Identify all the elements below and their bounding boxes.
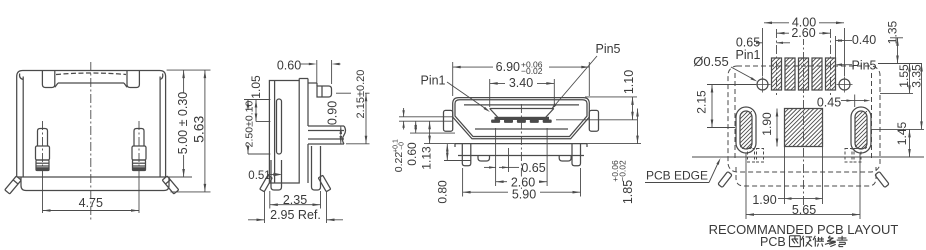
svg-text:5.65: 5.65: [792, 203, 816, 217]
svg-text:1.05: 1.05: [249, 75, 263, 99]
svg-text:0.51: 0.51: [248, 170, 270, 182]
svg-text:3.40: 3.40: [509, 76, 533, 90]
svg-text:0.90: 0.90: [326, 101, 340, 125]
svg-text:5.63: 5.63: [191, 115, 207, 142]
svg-text:−0.02: −0.02: [618, 160, 628, 182]
svg-text:1.13: 1.13: [420, 146, 434, 170]
svg-text:1.90: 1.90: [760, 112, 774, 136]
svg-text:2.50±0.10: 2.50±0.10: [244, 101, 256, 148]
svg-text:−0.02: −0.02: [521, 66, 543, 76]
svg-text:Pin5: Pin5: [851, 58, 876, 72]
svg-text:PCB EDGE: PCB EDGE: [646, 169, 708, 183]
svg-text:Ø0.55: Ø0.55: [693, 54, 728, 69]
svg-text:2.35: 2.35: [283, 193, 307, 207]
svg-text:1.90: 1.90: [752, 193, 776, 207]
svg-text:0.65: 0.65: [521, 161, 545, 175]
svg-text:0.22: 0.22: [393, 152, 405, 173]
svg-text:4.75: 4.75: [79, 196, 103, 210]
svg-text:2.15: 2.15: [695, 90, 709, 114]
svg-text:0.45: 0.45: [817, 95, 841, 109]
svg-text:1.10: 1.10: [622, 70, 636, 94]
svg-text:6.90: 6.90: [496, 60, 520, 74]
svg-text:Pin5: Pin5: [595, 42, 620, 56]
svg-text:0.60: 0.60: [277, 58, 301, 72]
svg-text:1.35: 1.35: [886, 20, 900, 44]
svg-text:Pin1: Pin1: [420, 74, 445, 88]
svg-text:5.00 ± 0.30: 5.00 ± 0.30: [176, 92, 190, 155]
svg-text:2.95 Ref.: 2.95 Ref.: [270, 208, 321, 222]
svg-text:1.85: 1.85: [621, 180, 635, 204]
svg-text:2.15±0.20: 2.15±0.20: [355, 70, 367, 119]
svg-text:0.80: 0.80: [435, 180, 449, 204]
svg-text:0.40: 0.40: [852, 33, 876, 47]
svg-text:3.35: 3.35: [910, 64, 924, 88]
svg-text:1.45: 1.45: [895, 121, 909, 145]
svg-text:RECOMMANDED PCB LAYOUT: RECOMMANDED PCB LAYOUT: [709, 222, 899, 237]
svg-text:Pin1: Pin1: [735, 48, 760, 62]
svg-text:5.90: 5.90: [512, 188, 536, 202]
svg-text:2.60: 2.60: [791, 26, 815, 40]
svg-text:0.60: 0.60: [405, 142, 419, 166]
svg-text:PCB: PCB: [760, 235, 786, 249]
